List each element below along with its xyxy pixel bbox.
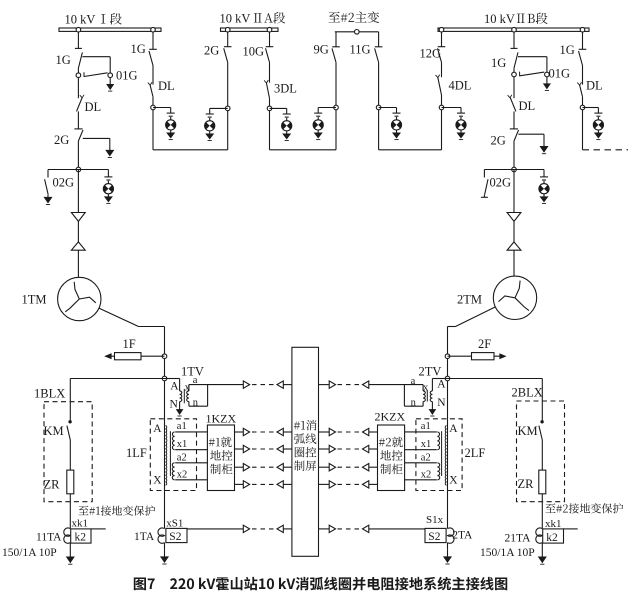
svg-text:2KZX: 2KZX [375, 409, 406, 423]
svg-text:1KZX: 1KZX [206, 411, 237, 425]
svg-text:DL: DL [85, 100, 102, 114]
svg-text:2F: 2F [478, 337, 491, 351]
svg-text:1TA: 1TA [134, 531, 155, 543]
svg-text:12G: 12G [420, 47, 442, 61]
svg-text:x: x [185, 382, 191, 393]
svg-text:x1: x1 [177, 439, 188, 450]
svg-text:N: N [437, 397, 446, 409]
svg-text:ZR: ZR [518, 477, 535, 491]
svg-text:S2: S2 [428, 531, 440, 543]
svg-text:DL: DL [519, 99, 536, 113]
svg-text:1LF: 1LF [126, 446, 147, 460]
svg-text:2TA: 2TA [452, 530, 473, 542]
svg-text:x1: x1 [421, 439, 432, 450]
svg-text:1G: 1G [131, 42, 146, 56]
svg-text:10G: 10G [243, 45, 265, 59]
svg-text:a: a [411, 376, 416, 387]
svg-text:KM: KM [518, 424, 538, 438]
svg-text:01G: 01G [116, 69, 138, 83]
svg-text:A: A [153, 423, 162, 435]
svg-text:X: X [153, 475, 162, 487]
svg-text:k2: k2 [75, 532, 87, 544]
svg-text:x: x [423, 382, 429, 393]
svg-text:150/1A 10P: 150/1A 10P [2, 547, 57, 559]
svg-text:1BLX: 1BLX [34, 387, 65, 401]
svg-text:2BLX: 2BLX [512, 386, 543, 400]
svg-text:KM: KM [44, 424, 64, 438]
svg-text:a2: a2 [177, 452, 187, 463]
svg-text:n: n [193, 397, 199, 408]
svg-text:a2: a2 [421, 452, 431, 463]
svg-text:DL: DL [586, 79, 603, 93]
svg-text:DL: DL [158, 79, 175, 93]
svg-text:10 kV: 10 kV [65, 13, 96, 27]
svg-text:2G: 2G [491, 134, 506, 148]
svg-text:150/1A 10P: 150/1A 10P [480, 547, 535, 559]
svg-text:11G: 11G [350, 43, 371, 57]
svg-text:xk1: xk1 [72, 518, 89, 530]
svg-text:1G: 1G [560, 43, 575, 57]
svg-text:xk1: xk1 [545, 518, 562, 530]
svg-text:10 kV: 10 kV [484, 12, 515, 26]
svg-text:1F: 1F [123, 337, 136, 351]
svg-text:S2: S2 [169, 531, 181, 543]
svg-text:4DL: 4DL [449, 79, 472, 93]
svg-text:x2: x2 [177, 470, 188, 481]
svg-text:2G: 2G [204, 44, 219, 58]
svg-text:02G: 02G [53, 176, 75, 190]
svg-text:S1x: S1x [426, 514, 444, 526]
svg-text:2G: 2G [54, 133, 69, 147]
svg-text:02G: 02G [490, 176, 512, 190]
svg-text:A: A [449, 423, 458, 435]
svg-text:N: N [170, 399, 179, 411]
svg-text:A: A [170, 381, 179, 393]
svg-text:1TM: 1TM [22, 293, 47, 307]
svg-text:9G: 9G [314, 43, 329, 57]
svg-text:ZR: ZR [44, 478, 61, 492]
svg-text:1G: 1G [56, 53, 71, 67]
svg-text:01G: 01G [549, 67, 571, 81]
svg-text:2TV: 2TV [419, 365, 442, 379]
svg-text:n: n [411, 397, 417, 408]
svg-text:11TA: 11TA [36, 532, 62, 544]
svg-text:a: a [193, 375, 198, 386]
svg-text:10 kV: 10 kV [220, 12, 251, 26]
svg-text:a1: a1 [177, 421, 187, 432]
svg-text:k2: k2 [546, 532, 558, 544]
svg-text:A: A [437, 379, 446, 391]
svg-text:3DL: 3DL [274, 82, 297, 96]
svg-text:21TA: 21TA [505, 532, 532, 544]
svg-text:2LF: 2LF [465, 446, 486, 460]
svg-text:X: X [449, 475, 458, 487]
svg-text:2TM: 2TM [457, 293, 482, 307]
svg-text:1G: 1G [491, 56, 506, 70]
svg-text:x2: x2 [421, 470, 432, 481]
svg-text:a1: a1 [421, 421, 431, 432]
svg-text:xS1: xS1 [166, 518, 183, 530]
